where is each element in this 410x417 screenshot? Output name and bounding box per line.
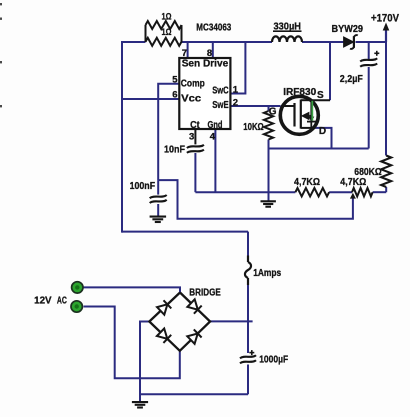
bridge diode bottom-left (157, 329, 167, 339)
svg-text:4: 4 (210, 132, 216, 143)
bridge diode bottom-right (187, 334, 197, 344)
wire bridge left corner to ground (140, 322, 149, 403)
wire S stub (310, 99, 330, 101)
svg-text:12V: 12V (34, 295, 52, 307)
wire Vin bus (y=232.6) (122, 231, 248, 233)
wire fuse vertical mid (247, 282, 249, 321)
wire 1000uF bottom lead (247, 365, 249, 395)
feedback junction arrow (350, 193, 356, 199)
svg-text:1Ω: 1Ω (162, 12, 172, 23)
wire top rail middle (1-ohm pair to inductor) (182, 41, 273, 43)
svg-text:4,7KΩ: 4,7KΩ (294, 176, 320, 188)
terminal 12V AC pad 2 (71, 301, 82, 312)
svg-text:2: 2 (233, 97, 238, 108)
wire 10K bottom lead (268, 140, 270, 149)
transistor Q1 body diode bar (307, 121, 316, 123)
wire 680K bottom lead (385, 187, 387, 192)
wire pin4 gnd drop (214, 129, 216, 192)
wire ground row right gap (329, 191, 352, 193)
power +170V arrow (385, 29, 387, 42)
svg-text:MC34063: MC34063 (196, 22, 231, 34)
wire switch node vertical (S to top rail) (329, 42, 331, 100)
wire AC1 to bridge top (84, 287, 181, 292)
wire ground drop x=268.5 (268, 149, 270, 202)
svg-text:Vcc: Vcc (181, 93, 201, 105)
transistor Q1 gate plate (293, 103, 295, 127)
svg-text:BRIDGE: BRIDGE (189, 287, 221, 299)
capacitor C2 2.2uF (polarized) (360, 58, 377, 61)
svg-text:5: 5 (172, 74, 178, 85)
transistor Q1 body diode line (310, 100, 312, 128)
wire bridge right corner to fuse line (210, 320, 253, 322)
green highlight artifact on body diode (311, 101, 313, 121)
wire ground row right end (373, 191, 387, 193)
svg-text:SwE: SwE (212, 99, 229, 111)
svg-text:2,2µF: 2,2µF (340, 73, 363, 85)
terminal 12V AC pad 1 (72, 282, 83, 293)
IC U1 MC34063 box (179, 58, 230, 129)
wire top rail left segment (122, 41, 146, 43)
svg-text:D: D (319, 126, 326, 137)
wire source/ground bus (horizontal y=148.5) (269, 148, 369, 150)
svg-text:S: S (317, 90, 324, 101)
bridge diode top-left (157, 304, 167, 314)
resistor R1 1-ohm (top of parallel pair) (146, 21, 182, 29)
svg-text:6: 6 (172, 89, 177, 100)
svg-text:+170V: +170V (371, 13, 400, 25)
svg-text:4,7KΩ: 4,7KΩ (340, 176, 366, 188)
resistor R2 1-ohm (bottom of parallel pair, in line) (146, 38, 182, 46)
resistor R5 4.7K (295, 188, 329, 196)
wire pin8 stub (212, 42, 214, 59)
wire gate (pin2 to MOSFET G) (230, 105, 280, 107)
svg-text:Comp: Comp (181, 78, 205, 90)
wire 2.2uF bottom lead (368, 67, 370, 149)
svg-text:Gnd: Gnd (208, 119, 223, 131)
wire bottom ground bus (140, 393, 248, 395)
wire top rail switch-node segment (inductor to diode) (302, 41, 344, 43)
wire 10K top lead (268, 106, 270, 111)
svg-text:IRF830: IRF830 (283, 86, 316, 98)
resistor R4 680K (381, 156, 391, 188)
svg-text:10nF: 10nF (164, 144, 185, 156)
transistor Q1 channel plate (300, 100, 302, 129)
fuse F1 1Amps (247, 256, 249, 263)
ground at source bus (261, 200, 276, 202)
transistor Q1 body arrow (301, 112, 310, 121)
wire pin5 comp stub (158, 84, 179, 180)
svg-text:8: 8 (207, 48, 212, 59)
svg-text:7: 7 (182, 48, 187, 59)
svg-text:1Amps: 1Amps (253, 267, 281, 279)
wire comp node to feedback drop (158, 180, 353, 219)
wire Vcc feed (pin 6) (121, 98, 179, 100)
wire 2.2uF top lead (368, 42, 370, 60)
wire D stub and drop (311, 128, 332, 149)
capacitor C5 1000uF (polarized) (240, 355, 256, 358)
svg-text:1: 1 (233, 84, 239, 95)
resistor R6 4.7K (352, 188, 373, 196)
transistor Q1 drain stub inner (301, 127, 311, 129)
inductor L1 330uH (272, 36, 302, 42)
svg-text:Sen Drive: Sen Drive (182, 58, 229, 70)
wire pin7 stub (187, 42, 189, 59)
svg-text:1000µF: 1000µF (259, 354, 288, 366)
svg-text:AC: AC (57, 295, 67, 307)
ground bottom left (132, 401, 148, 403)
svg-text:SwC: SwC (212, 84, 229, 96)
transistor Q1 source stub inner (301, 99, 310, 101)
wire +170V rail vertical (385, 42, 387, 156)
bridge rectifier frame (149, 293, 210, 351)
wire fuse vertical top (247, 232, 249, 258)
capacitor C4 100nF (150, 195, 167, 198)
ground under 100nF (150, 216, 167, 218)
svg-text:3: 3 (189, 132, 194, 143)
wire pin1 to top rail (230, 42, 245, 94)
bridge diode top-right (187, 299, 197, 309)
svg-text:BYW29: BYW29 (332, 23, 364, 35)
wire left vertical (x=122, top rail to Vin bus) (121, 41, 123, 233)
wire top rail output segment (diode to +170V corner) (356, 41, 387, 43)
svg-text:10KΩ: 10KΩ (243, 121, 264, 133)
wire 100nF bottom lead (157, 204, 159, 217)
wire AC2 to bridge bottom (84, 307, 180, 379)
resistor R3 10K (264, 111, 273, 140)
wire 10nF bottom lead (194, 153, 196, 192)
diode D1 BYW29 (344, 37, 354, 47)
capacitor C3 10nF (187, 145, 204, 148)
edge artifact ticks (0, 3, 2, 5)
transistor Q1 IRF830 body circle (280, 96, 318, 134)
wire fuse vertical to cap (247, 321, 249, 353)
svg-text:100nF: 100nF (130, 180, 156, 192)
pin3 stub black (194, 129, 196, 144)
svg-text:1Ω: 1Ω (162, 27, 172, 38)
wire ground row (y=192) (195, 191, 295, 193)
wire 100nF top lead (157, 180, 159, 195)
